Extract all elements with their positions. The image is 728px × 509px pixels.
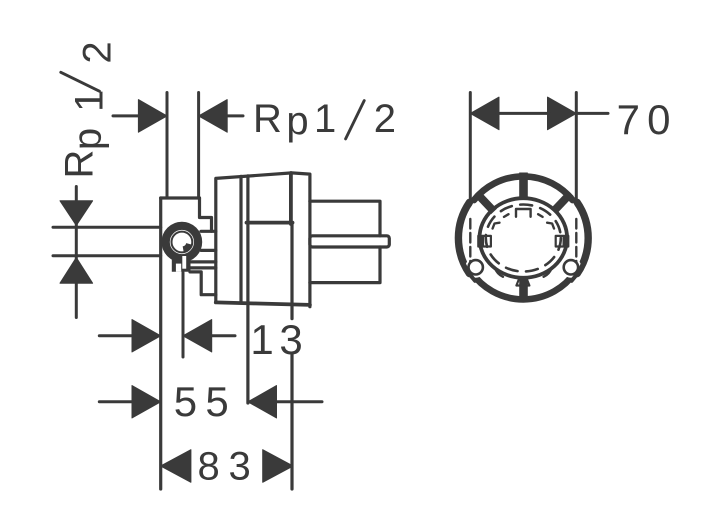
svg-text:1: 1 <box>314 97 336 141</box>
svg-text:R: R <box>57 150 101 179</box>
svg-text:p: p <box>66 128 110 150</box>
svg-text:0: 0 <box>647 96 670 143</box>
svg-text:1: 1 <box>68 90 112 112</box>
svg-text:2: 2 <box>75 41 119 63</box>
svg-text:R: R <box>253 97 282 141</box>
svg-text:3: 3 <box>279 316 302 363</box>
svg-text:5: 5 <box>205 378 228 425</box>
svg-text:3: 3 <box>228 444 250 488</box>
svg-text:5: 5 <box>174 378 197 425</box>
svg-text:7: 7 <box>617 96 640 143</box>
svg-text:8: 8 <box>197 444 219 488</box>
svg-text:2: 2 <box>374 97 396 141</box>
svg-text:p: p <box>286 99 308 143</box>
svg-text:1: 1 <box>250 316 273 363</box>
